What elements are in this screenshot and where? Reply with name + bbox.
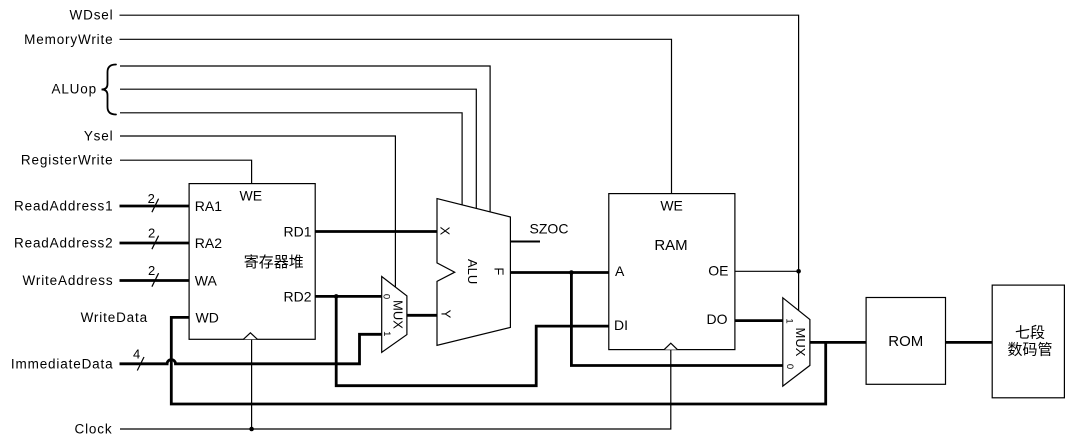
svg-text:0: 0 — [784, 364, 795, 369]
svg-text:MUX: MUX — [793, 328, 808, 357]
svg-text:2: 2 — [148, 225, 155, 240]
wire ALU F to RAM A — [510, 271, 608, 274]
wire ALUop bit0 — [120, 66, 490, 212]
wire register clock — [251, 339, 253, 429]
svg-text:ROM: ROM — [888, 333, 923, 350]
svg-text:Ysel: Ysel — [84, 129, 114, 144]
svg-text:七段: 七段 — [1015, 324, 1045, 341]
wire WriteAddress bus — [120, 279, 190, 282]
svg-text:RA1: RA1 — [195, 198, 222, 214]
register file clock triangle — [243, 333, 257, 340]
svg-text:ALU: ALU — [465, 259, 480, 284]
RAM clock triangle — [664, 343, 677, 349]
svg-text:DO: DO — [707, 311, 728, 327]
ALUop brace — [102, 65, 117, 115]
svg-text:WE: WE — [660, 198, 683, 214]
junction F node — [569, 270, 574, 275]
svg-text:2: 2 — [148, 263, 155, 278]
svg-text:DI: DI — [614, 317, 628, 333]
svg-text:ReadAddress2: ReadAddress2 — [14, 236, 114, 251]
svg-text:RD1: RD1 — [283, 224, 311, 240]
svg-text:WriteAddress: WriteAddress — [23, 273, 114, 288]
svg-text:数码管: 数码管 — [1007, 342, 1052, 359]
junction OE-WDsel node — [796, 269, 801, 274]
op-amp ALU shape — [437, 199, 510, 346]
svg-text:RAM: RAM — [654, 237, 687, 254]
wire ALUop bit1 — [120, 89, 476, 208]
wire ImmediateData bus with hop over WD vertical — [120, 334, 382, 364]
svg-text:WD: WD — [196, 309, 219, 325]
ROM U3 box — [866, 298, 945, 385]
svg-text:RD2: RD2 — [283, 288, 311, 304]
svg-text:F: F — [492, 267, 507, 275]
wire WriteData feedback to WD — [171, 317, 825, 404]
svg-text:ALUop: ALUop — [51, 82, 97, 97]
wire Clock net — [120, 350, 671, 429]
junction RD2 node — [334, 294, 339, 299]
svg-text:WDsel: WDsel — [70, 8, 114, 23]
svg-text:WA: WA — [195, 273, 218, 289]
wire RegisterWrite net — [120, 160, 252, 183]
MUX1 trapezoid — [382, 277, 407, 353]
svg-text:0: 0 — [381, 294, 392, 299]
wire OE to WDsel junction — [735, 270, 799, 272]
svg-text:寄存器堆: 寄存器堆 — [244, 253, 304, 271]
wire ReadAddress1 bus — [120, 205, 190, 208]
wire Ysel net — [120, 136, 395, 287]
wire F down to MUX2 in0 — [571, 273, 782, 366]
wire RD2 down to DI feed — [336, 296, 609, 385]
svg-text:MemoryWrite: MemoryWrite — [24, 32, 113, 47]
wire ReadAddress2 bus — [120, 242, 190, 245]
svg-text:4: 4 — [133, 347, 140, 362]
wire RAM DO to MUX2 in1 — [735, 319, 783, 322]
svg-text:RA2: RA2 — [195, 235, 222, 251]
wire WDsel net — [120, 15, 799, 310]
register file U1 box — [189, 184, 315, 340]
svg-text:WriteData: WriteData — [81, 310, 148, 325]
wire ALUop bit2 — [120, 113, 462, 205]
svg-text:2: 2 — [148, 191, 155, 206]
RAM U2 box — [609, 194, 735, 350]
svg-text:ReadAddress1: ReadAddress1 — [14, 199, 114, 214]
wire MUX1 out to ALU Y — [407, 314, 437, 317]
svg-text:X: X — [438, 227, 453, 236]
wire MUX2 out to ROM — [810, 341, 866, 344]
svg-text:1: 1 — [784, 318, 795, 323]
wire RD2 to MUX1 in0 — [315, 295, 382, 298]
svg-text:Y: Y — [439, 310, 454, 319]
svg-text:WE: WE — [240, 188, 263, 204]
svg-text:RegisterWrite: RegisterWrite — [21, 153, 114, 168]
svg-text:A: A — [615, 263, 625, 279]
junction Clock node — [249, 427, 254, 432]
svg-text:MUX: MUX — [391, 300, 406, 329]
svg-text:OE: OE — [708, 263, 728, 279]
wire SZOC stub — [510, 241, 540, 243]
seven-segment display box — [992, 285, 1064, 398]
svg-text:ImmediateData: ImmediateData — [11, 356, 114, 371]
MUX2 trapezoid — [783, 298, 810, 386]
svg-text:1: 1 — [381, 331, 392, 336]
svg-text:Clock: Clock — [74, 422, 112, 437]
svg-text:SZOC: SZOC — [530, 220, 569, 236]
wire MemoryWrite net — [120, 39, 672, 193]
wire RD1 to ALU X — [315, 230, 437, 233]
wire ROM to display — [946, 341, 993, 344]
